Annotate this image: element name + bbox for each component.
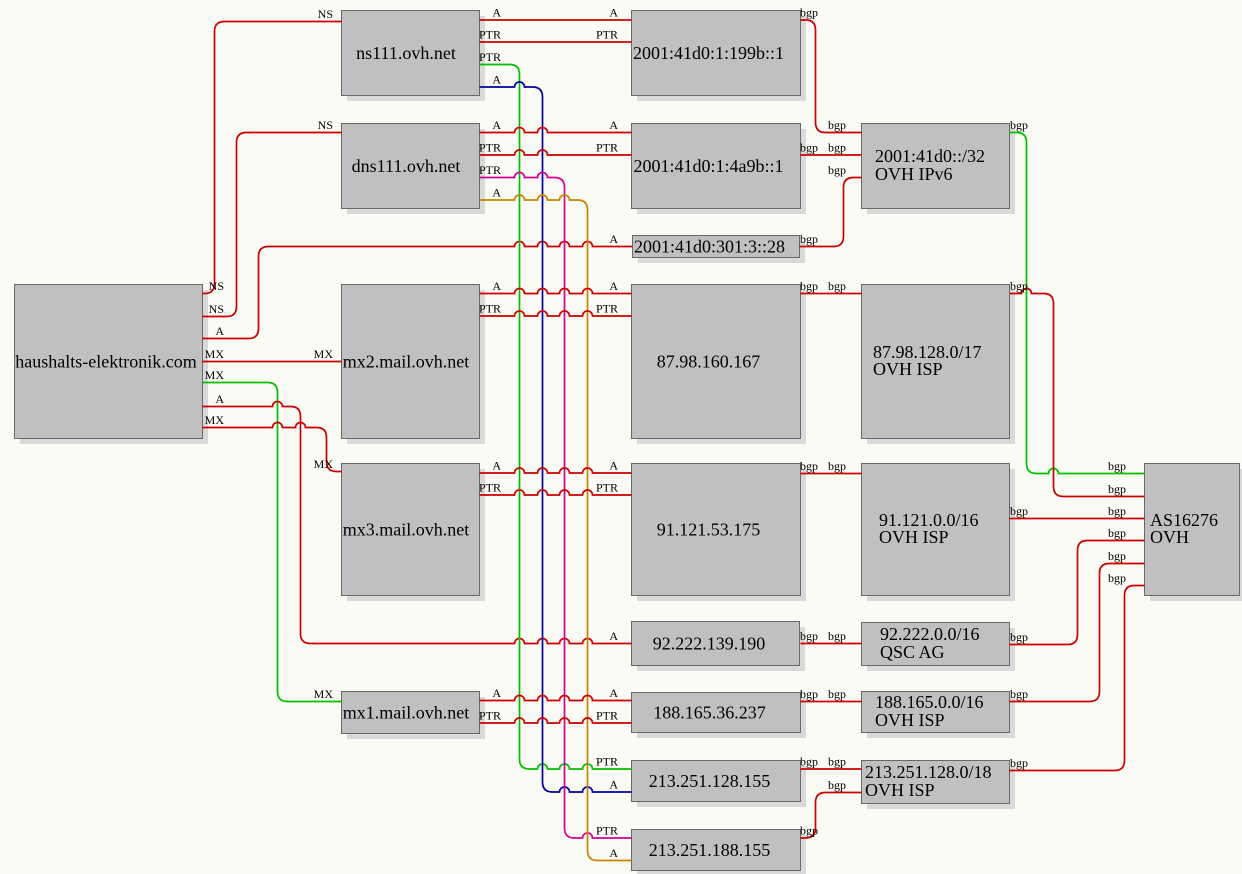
edge bgp 41d0/32-to-AS16276 xyxy=(1010,118,1145,474)
svg-text:bgp: bgp xyxy=(1108,526,1126,540)
svg-text:bgp: bgp xyxy=(1108,459,1126,473)
svg-text:A: A xyxy=(609,629,618,643)
shadow of node mx1.mail.ovh.net xyxy=(347,697,485,739)
edge bgp 213.251.128.155-to-213.251.128.0/18 xyxy=(800,755,862,770)
svg-text:QSC AG: QSC AG xyxy=(880,642,945,662)
node mx3.mail.ovh.net xyxy=(342,464,480,596)
svg-text:OVH ISP: OVH ISP xyxy=(865,780,935,800)
svg-text:213.251.128.155: 213.251.128.155 xyxy=(649,771,771,791)
edge bgp 188.165.36.237-to-188.165.0.0/16 xyxy=(800,687,862,702)
svg-text:A: A xyxy=(215,324,224,338)
edge NS haushalts-to-ns111 xyxy=(203,7,342,294)
svg-text:87.98.160.167: 87.98.160.167 xyxy=(657,351,761,371)
shadow of node 2001:41d0:1:199b::1 xyxy=(637,16,806,101)
svg-text:ns111.ovh.net: ns111.ovh.net xyxy=(356,43,456,63)
svg-text:A: A xyxy=(609,846,618,860)
shadow of node 213.251.128.155 xyxy=(637,766,806,807)
svg-text:bgp: bgp xyxy=(1010,630,1028,644)
edge bgp 87.98.160.167-to-87.98.128.0/17 xyxy=(800,279,862,294)
svg-text:A: A xyxy=(609,459,618,473)
svg-text:MX: MX xyxy=(314,687,334,701)
svg-text:A: A xyxy=(609,6,618,20)
edge PTR dns111-to-213.251.188.155 xyxy=(479,163,632,838)
svg-text:bgp: bgp xyxy=(800,824,818,838)
svg-text:bgp: bgp xyxy=(828,687,846,701)
node 213.251.128.155 xyxy=(632,761,801,802)
svg-text:A: A xyxy=(492,118,501,132)
svg-text:bgp: bgp xyxy=(828,459,846,473)
node haushalts-elektronik.com xyxy=(15,285,203,439)
svg-text:PTR: PTR xyxy=(479,302,501,316)
svg-text:A: A xyxy=(609,118,618,132)
svg-text:A: A xyxy=(492,6,501,20)
svg-text:bgp: bgp xyxy=(828,163,846,177)
svg-text:PTR: PTR xyxy=(596,824,618,838)
svg-text:OVH ISP: OVH ISP xyxy=(875,710,945,730)
edge PTR mx2-to-87.98.160.167 xyxy=(479,302,632,317)
svg-text:NS: NS xyxy=(209,302,224,316)
shadow of node 87.98.128.0/17 xyxy=(867,290,1015,444)
svg-text:NS: NS xyxy=(318,7,333,21)
edge MX haushalts-to-mx2 xyxy=(203,347,342,362)
svg-text:bgp: bgp xyxy=(828,755,846,769)
edge bgp 92.222.139.190-to-92.222.0.0/16 xyxy=(800,629,862,644)
svg-text:bgp: bgp xyxy=(800,755,818,769)
shadow of node 188.165.0.0/16 xyxy=(867,697,1015,738)
svg-text:bgp: bgp xyxy=(828,629,846,643)
node 213.251.128.0/18 xyxy=(862,761,1010,804)
node 2001:41d0:1:199b::1 xyxy=(632,11,801,96)
svg-text:2001:41d0:1:4a9b::1: 2001:41d0:1:4a9b::1 xyxy=(634,156,784,176)
edge PTR dns111-to-4a9b xyxy=(479,141,632,156)
edge A ns111-to-199b xyxy=(480,6,632,21)
node 2001:41d0:1:4a9b::1 xyxy=(632,124,801,209)
svg-text:PTR: PTR xyxy=(596,302,618,316)
shadow of node 2001:41d0:301:3::28 xyxy=(638,241,805,263)
shadow of node 91.121.53.175 xyxy=(637,469,806,601)
svg-text:188.165.36.237: 188.165.36.237 xyxy=(653,702,766,722)
edge PTR mx1-to-188.165.36.237 xyxy=(479,709,632,724)
edge bgp 91.121.0.0/16-to-AS16276 xyxy=(1010,504,1145,519)
shadow of node 2001:41d0:1:4a9b::1 xyxy=(637,129,806,214)
edge A mx3-to-91.121.53.175 xyxy=(480,459,632,474)
shadow of node 91.121.0.0/16 xyxy=(867,469,1015,601)
svg-text:92.222.139.190: 92.222.139.190 xyxy=(653,633,766,653)
node 188.165.36.237 xyxy=(632,693,801,733)
node ns111.ovh.net xyxy=(342,11,480,96)
svg-text:bgp: bgp xyxy=(800,629,818,643)
svg-text:bgp: bgp xyxy=(828,118,846,132)
svg-text:A: A xyxy=(609,686,618,700)
shadow of node 92.222.139.190 xyxy=(637,627,805,671)
svg-text:bgp: bgp xyxy=(1010,279,1028,293)
svg-text:A: A xyxy=(492,73,501,87)
svg-text:OVH ISP: OVH ISP xyxy=(873,359,943,379)
edge A mx1-to-188.165.36.237 xyxy=(480,686,632,701)
svg-text:bgp: bgp xyxy=(1108,504,1126,518)
edge PTR ns111-to-213.251.128.155 xyxy=(479,50,632,769)
node 2001:41d0::/32 xyxy=(862,124,1010,209)
node 188.165.0.0/16 xyxy=(862,692,1010,733)
svg-text:NS: NS xyxy=(318,118,333,132)
edge NS haushalts-to-dns111 xyxy=(203,118,342,317)
node 2001:41d0:301:3::28 xyxy=(633,236,800,258)
node 87.98.160.167 xyxy=(632,285,801,439)
svg-text:bgp: bgp xyxy=(828,279,846,293)
svg-text:OVH IPv6: OVH IPv6 xyxy=(875,164,953,184)
edge A dns111-to-4a9b xyxy=(480,118,632,133)
node AS16276 xyxy=(1145,464,1240,596)
svg-text:bgp: bgp xyxy=(800,6,818,20)
shadow of node 87.98.160.167 xyxy=(637,290,806,444)
edge bgp 199b-to-41d0/32 xyxy=(800,6,862,133)
edge bgp 213.251.188.155-to-213.251.128.0/18 xyxy=(800,778,862,838)
svg-text:MX: MX xyxy=(314,347,334,361)
svg-text:2001:41d0:301:3::28: 2001:41d0:301:3::28 xyxy=(634,236,785,256)
shadow of node 2001:41d0::/32 xyxy=(867,129,1015,214)
svg-text:A: A xyxy=(215,392,224,406)
svg-text:bgp: bgp xyxy=(800,141,818,155)
svg-text:bgp: bgp xyxy=(800,279,818,293)
shadow of node 213.251.128.0/18 xyxy=(867,766,1015,809)
shadow of node ns111.ovh.net xyxy=(347,16,485,101)
shadow of node AS16276 xyxy=(1150,469,1242,601)
edge A mx2-to-87.98.160.167 xyxy=(480,279,632,294)
svg-text:2001:41d0:1:199b::1: 2001:41d0:1:199b::1 xyxy=(633,43,784,63)
svg-text:MX: MX xyxy=(205,347,225,361)
svg-text:bgp: bgp xyxy=(800,687,818,701)
svg-text:bgp: bgp xyxy=(1010,504,1028,518)
svg-text:NS: NS xyxy=(209,279,224,293)
edge A ns111-to-213.251.128.155 xyxy=(480,73,632,793)
edge PTR mx3-to-91.121.53.175 xyxy=(479,481,632,496)
shadow of node 92.222.0.0/16 xyxy=(867,628,1015,671)
edge MX haushalts-to-mx3 xyxy=(203,413,342,472)
svg-text:mx1.mail.ovh.net: mx1.mail.ovh.net xyxy=(343,702,469,722)
svg-text:MX: MX xyxy=(314,457,334,471)
svg-text:PTR: PTR xyxy=(596,755,618,769)
edge A haushalts-to-92.222.139.190 xyxy=(203,392,632,644)
svg-text:bgp: bgp xyxy=(1108,482,1126,496)
node 92.222.139.190 xyxy=(632,622,800,666)
shadow of node 188.165.36.237 xyxy=(637,698,806,738)
shadow of node haushalts-elektronik.com xyxy=(20,290,208,444)
svg-text:MX: MX xyxy=(205,413,225,427)
shadow of node dns111.ovh.net xyxy=(347,129,485,214)
svg-text:OVH: OVH xyxy=(1150,527,1189,547)
edge bgp 92.222.0.0/16-to-AS16276 xyxy=(1010,526,1145,645)
edge bgp 87.98.128.0/17-to-AS16276 xyxy=(1010,279,1145,497)
shadow of node 213.251.188.155 xyxy=(637,835,806,874)
edge bgp 188.165.0.0/16-to-AS16276 xyxy=(1010,549,1145,702)
node 91.121.53.175 xyxy=(632,464,801,596)
svg-text:PTR: PTR xyxy=(479,28,501,42)
svg-text:PTR: PTR xyxy=(596,709,618,723)
svg-text:PTR: PTR xyxy=(596,481,618,495)
svg-text:213.251.188.155: 213.251.188.155 xyxy=(649,840,771,860)
svg-text:PTR: PTR xyxy=(479,141,501,155)
svg-text:PTR: PTR xyxy=(596,28,618,42)
svg-text:A: A xyxy=(492,186,501,200)
shadow of node mx3.mail.ovh.net xyxy=(347,469,485,601)
svg-text:PTR: PTR xyxy=(479,481,501,495)
svg-text:A: A xyxy=(609,232,618,246)
svg-text:A: A xyxy=(609,279,618,293)
svg-text:91.121.53.175: 91.121.53.175 xyxy=(657,519,761,539)
node 91.121.0.0/16 xyxy=(862,464,1010,596)
svg-text:PTR: PTR xyxy=(479,709,501,723)
svg-text:A: A xyxy=(492,686,501,700)
svg-text:haushalts-elektronik.com: haushalts-elektronik.com xyxy=(15,351,196,371)
shadow of node mx2.mail.ovh.net xyxy=(347,290,485,444)
node mx1.mail.ovh.net xyxy=(342,692,480,734)
node 213.251.188.155 xyxy=(632,830,801,871)
svg-text:bgp: bgp xyxy=(828,141,846,155)
node 92.222.0.0/16 xyxy=(862,623,1010,666)
svg-text:bgp: bgp xyxy=(1108,571,1126,585)
svg-text:PTR: PTR xyxy=(479,50,501,64)
svg-text:A: A xyxy=(609,778,618,792)
node mx2.mail.ovh.net xyxy=(342,285,480,439)
svg-text:OVH ISP: OVH ISP xyxy=(879,527,949,547)
svg-text:MX: MX xyxy=(205,368,225,382)
edge bgp 91.121.53.175-to-91.121.0.0/16 xyxy=(800,459,862,474)
svg-text:bgp: bgp xyxy=(1010,687,1028,701)
svg-text:bgp: bgp xyxy=(828,778,846,792)
node 87.98.128.0/17 xyxy=(862,285,1010,439)
svg-text:mx2.mail.ovh.net: mx2.mail.ovh.net xyxy=(343,351,469,371)
svg-text:bgp: bgp xyxy=(800,459,818,473)
svg-text:PTR: PTR xyxy=(479,163,501,177)
svg-text:mx3.mail.ovh.net: mx3.mail.ovh.net xyxy=(343,519,469,539)
svg-text:bgp: bgp xyxy=(1010,118,1028,132)
edge bgp 4a9b-to-41d0/32 xyxy=(800,141,862,156)
svg-text:bgp: bgp xyxy=(800,232,818,246)
edge MX haushalts-to-mx1 xyxy=(203,368,342,702)
edge A dns111-to-213.251.188.155 xyxy=(480,186,632,861)
node dns111.ovh.net xyxy=(342,124,480,209)
svg-text:bgp: bgp xyxy=(1010,756,1028,770)
svg-text:bgp: bgp xyxy=(1108,549,1126,563)
svg-text:A: A xyxy=(492,279,501,293)
edge bgp 301:3::28-to-41d0/32 xyxy=(800,163,862,247)
svg-text:PTR: PTR xyxy=(596,141,618,155)
edge A haushalts-to-2001:41d0:301:3::28 xyxy=(203,232,633,339)
svg-text:dns111.ovh.net: dns111.ovh.net xyxy=(352,156,461,176)
svg-text:A: A xyxy=(492,459,501,473)
edge PTR ns111-to-199b xyxy=(479,28,632,43)
edge bgp 213.251.128.0/18-to-AS16276 xyxy=(1010,571,1145,771)
